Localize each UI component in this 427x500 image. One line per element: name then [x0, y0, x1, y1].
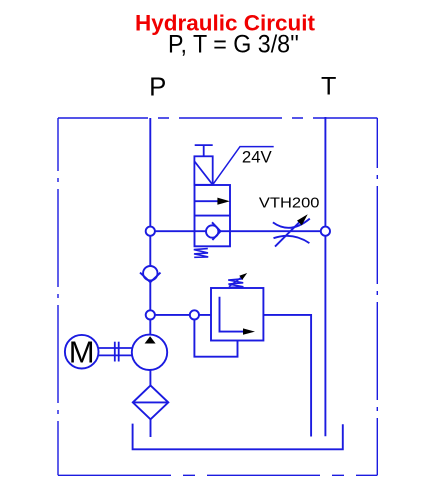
wire P vertical line	[149, 118, 151, 335]
relief valve adjustment arrow	[229, 273, 247, 287]
svg-text:M: M	[69, 335, 95, 370]
shaft coupling ticks	[115, 342, 119, 362]
valve top position arrow	[195, 198, 230, 205]
manual override stem	[195, 145, 213, 156]
svg-text:T: T	[321, 73, 336, 101]
solenoid coil	[194, 156, 212, 185]
valve bottom position check	[206, 222, 221, 240]
svg-text:VTH200: VTH200	[259, 196, 320, 212]
suction filter	[133, 385, 169, 419]
node junction T line	[321, 227, 330, 236]
svg-text:P, T = G 3/8'': P, T = G 3/8''	[168, 30, 299, 58]
electric motor M1	[65, 335, 99, 370]
wire relief-valve supply	[150, 314, 211, 316]
svg-text:24V: 24V	[242, 148, 273, 167]
wire relief-valve outlet to tank	[263, 315, 311, 437]
enclosure boundary (dash-dot frame)	[58, 118, 377, 475]
hydraulic pump	[132, 335, 167, 370]
wire relief-valve pilot loop	[194, 315, 237, 357]
relief valve spring	[228, 279, 243, 288]
tank	[133, 424, 343, 450]
wire pump suction to filter	[149, 370, 151, 385]
pressure relief valve	[211, 288, 263, 341]
valve return spring	[194, 249, 208, 258]
node junction pump outlet	[146, 310, 155, 319]
node junction relief supply	[190, 310, 199, 319]
wire filter to tank	[150, 419, 152, 437]
wire T vertical line	[324, 117, 326, 436]
solenoid cartridge valve body	[195, 185, 231, 246]
svg-text:P: P	[149, 73, 166, 101]
wire main horizontal P-to-T	[150, 230, 325, 232]
motor-pump shaft	[98, 348, 131, 355]
node junction P main	[146, 227, 155, 236]
24V leader line	[213, 147, 274, 185]
flow control valve VTH200	[273, 214, 310, 246]
check valve on P line	[140, 266, 161, 282]
